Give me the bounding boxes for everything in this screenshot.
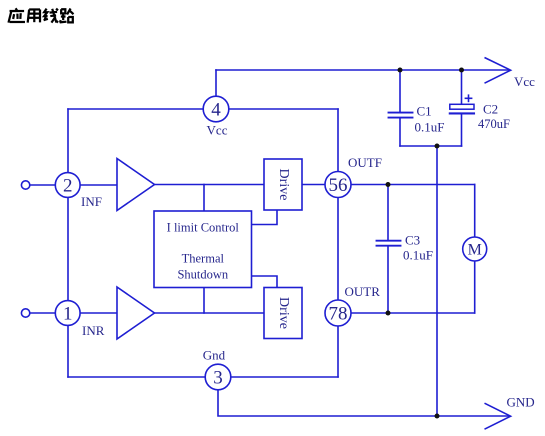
capacitor C1 [389,70,413,146]
char 用 [28,9,40,22]
svg-text:56: 56 [329,175,348,196]
wire IC right rail [337,109,339,377]
pin 56 circle [325,172,351,198]
char 应 [8,8,24,22]
junction dot C2 top [459,68,464,73]
wire drive1 to pin56 [302,184,338,186]
wire motor to OUTR [474,249,476,313]
op-amp buffer A1 [117,159,155,211]
svg-text:M: M [468,242,482,259]
svg-text:Vcc: Vcc [514,74,535,89]
svg-text:0.1uF: 0.1uF [415,120,445,135]
wire control to drive1 [252,210,277,225]
wire OUTR [338,312,475,314]
wire to control box top [203,185,205,212]
wire Vcc top rail [216,69,509,71]
svg-text:Thermal: Thermal [182,252,225,266]
wire IC bottom rail [68,376,338,378]
driver block Drive1 [264,159,302,210]
wire OUTF [338,184,475,186]
svg-text:INF: INF [81,194,102,209]
wire IC top rail [68,108,338,110]
input terminal INR [21,309,29,317]
svg-text:1: 1 [63,304,73,325]
svg-text:C2: C2 [483,102,498,117]
driver block Drive2 [264,288,302,339]
svg-text:Shutdown: Shutdown [177,268,228,282]
motor M circle [463,237,487,261]
svg-text:INR: INR [82,323,105,338]
wire amp1 output [154,184,264,186]
wire control to drive2 [252,276,277,288]
pin 1 circle [55,301,80,326]
pin 4 circle [203,96,229,122]
junction dot C3 bottom [386,311,391,316]
wire pin3 to GND rail [218,377,509,416]
wire input INF [29,184,117,186]
Vcc power arrow [485,58,511,84]
wire pin4 stem [215,70,217,109]
svg-text:C3: C3 [405,233,420,248]
wire motor branch top [474,185,476,250]
svg-text:I limit Control: I limit Control [167,221,240,235]
svg-text:Drive: Drive [276,297,291,329]
svg-text:OUTR: OUTR [345,284,381,299]
char 线 [44,9,58,23]
junction dot GND rail [435,414,440,419]
pin 78 circle [325,300,351,326]
wire long vertical to GND [436,146,438,416]
input terminal INF [21,181,29,189]
GND power arrow [485,403,511,429]
svg-text:OUTF: OUTF [348,155,382,170]
wire capacitors bottom rail [400,145,462,147]
svg-text:78: 78 [329,304,348,325]
svg-text:470uF: 470uF [478,117,510,131]
svg-text:Drive: Drive [276,169,291,201]
svg-text:4: 4 [211,100,221,121]
char 路 [60,8,74,22]
title 应用线路 (drawn as strokes, CJK not available) [8,8,73,22]
junction dot C1 top [398,68,403,73]
svg-text:0.1uF: 0.1uF [403,248,433,263]
pin 2 circle [55,173,80,198]
svg-text:Vcc: Vcc [207,123,228,138]
pin 3 circle [205,364,231,390]
wire input INR [29,312,117,314]
svg-text:C1: C1 [417,104,432,119]
wire to control box bottom [203,288,205,313]
svg-text:GND: GND [507,395,535,410]
control block [154,211,252,288]
svg-text:3: 3 [213,368,223,389]
wire amp2 output [154,312,264,314]
op-amp buffer A2 [117,287,155,339]
wire IC left rail [67,109,69,377]
svg-text:2: 2 [63,176,73,197]
junction dot cap bottom rail [435,144,440,149]
capacitor C3 [377,185,401,314]
svg-text:Gnd: Gnd [203,348,226,363]
junction dot C3 top [386,182,391,187]
capacitor C2 electrolytic [450,70,474,146]
